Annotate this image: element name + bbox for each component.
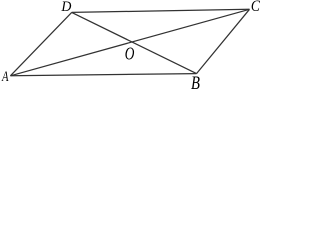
side AB	[10, 74, 196, 76]
svg-text:B: B	[191, 72, 200, 89]
diagonal AC	[10, 9, 249, 76]
side DA	[10, 12, 71, 75]
svg-text:O: O	[125, 45, 135, 64]
svg-text:D: D	[60, 0, 72, 15]
side CD	[72, 9, 250, 12]
svg-text:A: A	[1, 69, 9, 85]
diagonal BD	[72, 12, 197, 73]
svg-text:C: C	[251, 0, 260, 15]
side BC	[197, 9, 250, 73]
